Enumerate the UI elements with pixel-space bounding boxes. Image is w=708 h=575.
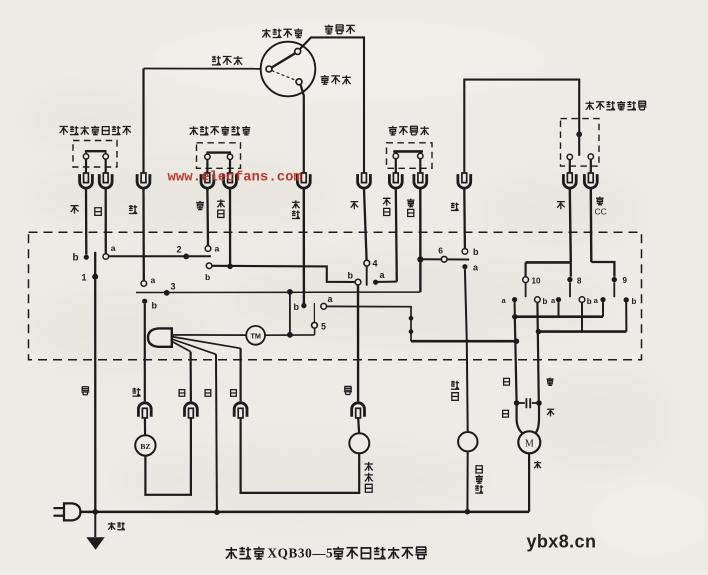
- switch 6 common line: [422, 258, 470, 260]
- wire white 2 cam to bottom bus: [215, 354, 218, 512]
- junction dot on solenoid branch lower: [409, 329, 414, 334]
- wire white 3 up to cam: [240, 348, 242, 401]
- wire blue-cc down: [590, 189, 593, 262]
- wire light-brown down to contact 5b: [303, 189, 306, 304]
- label yellow-green: [108, 522, 125, 530]
- selector box: no-drain stop switch (dashed): [73, 141, 117, 168]
- connector red-white: [389, 173, 402, 188]
- label NC point: [325, 25, 355, 34]
- wire 5a to solenoid branch: [327, 306, 411, 341]
- selector box: water-flow mode switch (dashed): [561, 119, 600, 167]
- contact 4a: [373, 280, 378, 285]
- wire solenoid feed: [466, 341, 469, 432]
- label yellow (motor bottom): [534, 461, 541, 468]
- contact 6: [441, 256, 447, 262]
- label safety switch: [389, 126, 429, 135]
- contact 1b: [84, 255, 89, 260]
- cam link diagonal to white wire 3: [172, 337, 241, 349]
- stub 8a to bus1: [558, 302, 560, 316]
- junction TM node: [287, 332, 293, 338]
- junction bus2-left: [536, 329, 541, 334]
- wire valve to black connector: [357, 418, 360, 434]
- wire red-white down: [396, 189, 397, 281]
- wire orange connector to buzzer: [144, 418, 146, 435]
- label black (left column): [81, 387, 89, 395]
- contact 2a: [205, 246, 211, 252]
- rotary switch arm to NC contact: [272, 53, 296, 67]
- motor M: [518, 431, 540, 453]
- contact 10: [523, 277, 529, 283]
- label blue: [95, 208, 102, 216]
- connector brown: [137, 173, 150, 188]
- wire bus down to TM node: [289, 292, 291, 335]
- safety switch stub left: [395, 151, 397, 153]
- contact 4 on red wire: [364, 260, 370, 266]
- motor right column from 10b: [537, 302, 538, 403]
- wire gray tee horizontal: [526, 261, 571, 264]
- wire red down to contact 4: [364, 189, 367, 260]
- connector purple: [201, 173, 214, 188]
- capacitor plate right: [529, 398, 531, 408]
- contact 9b: [624, 297, 629, 302]
- contact 5b end: [301, 303, 306, 308]
- wire NC contact to red connector: [300, 37, 365, 173]
- stub 8b to bus2: [581, 302, 583, 331]
- contact 3a: [141, 281, 147, 287]
- cam link diagonal to white wire 2: [172, 339, 216, 354]
- wire 2b to 4b with step: [212, 266, 355, 282]
- rinse switch bridge: [206, 151, 231, 153]
- contact 5a: [321, 303, 327, 309]
- wire blue down to contact 1a: [105, 189, 107, 253]
- wire blue-cc lead into connector: [590, 160, 592, 174]
- junction bus / white 2: [214, 509, 220, 515]
- wire blue-white lead into connector: [419, 159, 421, 174]
- label white 3: [231, 390, 237, 397]
- connector blue-white: [414, 173, 427, 188]
- label water-flow mode selector: [586, 101, 647, 110]
- contact 6a: [462, 264, 467, 269]
- motor bus 2: [538, 330, 626, 333]
- label red-white (vertical): [383, 198, 391, 215]
- label light-blue (vertical): [217, 199, 225, 217]
- wire red-white elbow to contact 4a: [378, 281, 397, 283]
- wire black connector up to contact 4b: [357, 285, 360, 401]
- switch 9 arm: [613, 282, 615, 297]
- plug prong upper: [54, 507, 65, 509]
- motor left column: [515, 317, 517, 403]
- contact 10b: [535, 297, 541, 303]
- wire 6a down to solenoid: [465, 269, 467, 341]
- motor lead right lower: [538, 403, 540, 420]
- label white 1: [179, 390, 185, 397]
- stub 10a to bus1: [514, 302, 516, 316]
- wire green down to contact 6b: [463, 189, 466, 248]
- wire contact 1a to node 2: [109, 255, 211, 257]
- junction node 2: [183, 254, 189, 260]
- rinse switch stub right: [229, 153, 231, 155]
- label no-drain stop selector: [60, 126, 131, 135]
- safety contact left: [393, 153, 398, 158]
- connector blue-cc: [584, 173, 597, 188]
- junction bus to TM riser: [287, 289, 293, 295]
- connector orange (lower): [138, 403, 151, 418]
- motor lead right curve: [535, 420, 539, 434]
- junction bus / black wire: [93, 509, 99, 515]
- wire solenoid to bottom bus: [466, 451, 468, 511]
- contact 5: [312, 322, 318, 328]
- label blue (capacitor top-left): [504, 378, 510, 385]
- rinse contact left: [205, 154, 210, 159]
- contact 8: [567, 277, 572, 282]
- label purple: [196, 201, 204, 210]
- switch 1 pole / black wire down: [94, 252, 96, 512]
- motor lead left lower: [515, 403, 517, 420]
- label electromagnet (vertical): [475, 466, 483, 493]
- no-drain switch bridge: [85, 150, 107, 152]
- stub 9b to bus2: [625, 302, 627, 331]
- wire common horizontal to rotary switch: [144, 68, 262, 70]
- connector green: [458, 173, 471, 188]
- wire gray down to contact 8: [570, 262, 572, 276]
- rotary switch S-WL body (water level selector): [261, 42, 316, 97]
- no-drain contact left: [83, 154, 88, 159]
- junction capacitor left: [514, 400, 520, 406]
- connector peach: [80, 173, 93, 188]
- wire blue lead into connector: [105, 159, 107, 174]
- wire peach lead into connector: [85, 159, 87, 174]
- label green-white (vertical): [451, 381, 459, 401]
- cam link diagonal to white wire 1: [172, 341, 191, 351]
- contact 3b: [142, 299, 147, 304]
- wire gray down: [570, 189, 571, 262]
- connector black (lower): [352, 403, 365, 418]
- label red (motor right): [547, 409, 554, 416]
- wire red-white lead into connector: [395, 159, 397, 174]
- label light-brown (vertical): [292, 200, 300, 218]
- capacitor lead left: [517, 402, 525, 404]
- label orange (buzzer wire): [132, 388, 140, 396]
- wire buzzer return loop: [145, 418, 191, 495]
- label blue (motor left): [503, 410, 509, 417]
- connector light-blue: [224, 173, 237, 188]
- caption prefix (Jinling brand): [226, 547, 265, 559]
- safety switch stub right: [419, 151, 421, 153]
- wire brown down to contact 3a: [142, 189, 145, 280]
- label white 2: [205, 390, 211, 397]
- no-drain switch stub right: [105, 151, 107, 154]
- connector red: [358, 173, 371, 188]
- contact 1a: [103, 254, 109, 260]
- contact 8a: [556, 297, 561, 302]
- label peach: [70, 206, 78, 214]
- junction node 3: [164, 290, 170, 296]
- label red: [350, 202, 358, 210]
- wire white 3 down to valve return: [241, 418, 360, 493]
- ground symbol: [86, 537, 104, 550]
- mains plug: [64, 503, 80, 520]
- wire contact 5 to TM wire: [314, 328, 316, 335]
- wire purple down to contact 2a: [206, 189, 209, 246]
- contact 4b: [355, 279, 361, 285]
- label NO point: [321, 75, 351, 84]
- contact 8b: [579, 297, 585, 303]
- junction bus1-left: [512, 314, 517, 319]
- rotary common contact: [266, 66, 272, 72]
- connector blue: [99, 173, 112, 188]
- connector white 3 (lower): [234, 403, 247, 418]
- solenoid coil (electromagnet): [458, 432, 477, 451]
- junction light-blue on 2b wire: [227, 264, 233, 270]
- junction solenoid-link to motor column: [514, 338, 520, 344]
- water-flow contact left: [567, 154, 572, 159]
- wire blue-cc elbow to contact 9: [591, 262, 614, 277]
- safety switch bridge: [393, 150, 423, 153]
- wire TM to contact 5 link: [265, 334, 315, 336]
- switch 3 common bus: [136, 291, 420, 293]
- capacitor plate left: [525, 398, 527, 408]
- contact 10a: [512, 297, 517, 302]
- programme controller boundary (large dashed box): [29, 232, 642, 359]
- label green: [451, 203, 459, 211]
- wire red stub below contact 4: [366, 266, 368, 286]
- selector box: rinse mode switch (dashed): [197, 143, 241, 169]
- motor lead left curve: [517, 420, 524, 434]
- label water-level-selector: [262, 28, 303, 37]
- wire NO contact down to light-brown connector: [301, 85, 304, 174]
- water-flow contact right: [588, 154, 593, 159]
- rotary NO contact: [296, 79, 302, 85]
- label brown (capacitor top-right): [547, 378, 554, 386]
- wire gray lead into connector: [569, 160, 571, 174]
- wire blue-white down: [419, 189, 422, 292]
- scan shading patches: [30, 90, 670, 520]
- plug prong lower: [54, 515, 65, 517]
- rinse contact right: [227, 154, 232, 159]
- rotary dashed arm to NO contact: [272, 71, 297, 81]
- label brown: [129, 205, 137, 213]
- rotary NC contact: [295, 48, 301, 54]
- wire purple lead into connector: [206, 159, 208, 173]
- wire green riser and top link to water-flow selector: [464, 80, 579, 174]
- label blue-cc top: [596, 197, 604, 205]
- wire white 1 up to cam: [190, 352, 192, 402]
- selector box: safety switch (dashed): [387, 143, 433, 169]
- wire tee down to contact 10: [524, 262, 526, 276]
- timer motor TM: [246, 326, 265, 345]
- switch 5 arm (thin): [313, 303, 315, 322]
- contact 6b: [462, 249, 468, 255]
- switch 10 arm: [525, 283, 527, 298]
- water valve coil: [349, 433, 369, 453]
- buzzer BZ: [135, 435, 155, 455]
- junction capacitor right: [536, 400, 542, 406]
- switch 8 arm: [569, 282, 571, 297]
- connector white 1 (lower): [185, 403, 198, 418]
- stub 9a to bus1: [602, 302, 604, 316]
- label black (valve wire): [344, 386, 352, 394]
- wire peach down to contact 1b: [85, 189, 88, 254]
- safety contact right: [418, 153, 423, 158]
- timer cam (D-shaped): [148, 328, 172, 346]
- wire motor to bottom bus (yellow): [528, 453, 530, 512]
- ground stem: [94, 512, 96, 537]
- contact 9a: [600, 297, 605, 302]
- connector gray: [563, 173, 576, 188]
- contact 2b: [206, 263, 212, 269]
- junction node on blue-white wire: [417, 256, 423, 262]
- wire light-blue lead into connector: [229, 159, 231, 173]
- thick link to motor column: [411, 340, 516, 343]
- connector light-brown: [297, 173, 310, 188]
- wire brown riser to common point: [142, 69, 144, 174]
- junction dot on solenoid branch upper: [409, 316, 414, 321]
- mains bottom bus: [80, 511, 529, 514]
- caption suffix (type full-automatic washing machine): [333, 547, 427, 559]
- label blue-white (vertical): [407, 199, 414, 217]
- wire light-blue down to junction: [229, 189, 231, 264]
- rinse switch stub left: [206, 153, 208, 155]
- capacitor lead right: [532, 402, 539, 404]
- label water valve (vertical): [365, 462, 373, 492]
- no-drain contact right: [103, 154, 108, 159]
- cam link to TM: [172, 334, 246, 336]
- junction node 1: [92, 274, 98, 280]
- junction on water-flow selector pole: [576, 131, 582, 137]
- motor bus 1: [515, 315, 603, 318]
- contact 9: [612, 277, 617, 282]
- label common point: [212, 56, 242, 65]
- label rinse mode selector: [190, 126, 251, 135]
- junction bus / solenoid: [465, 509, 471, 515]
- label gray: [557, 202, 565, 210]
- wire orange from 3b down: [144, 304, 146, 402]
- no-drain switch stub left: [85, 151, 87, 154]
